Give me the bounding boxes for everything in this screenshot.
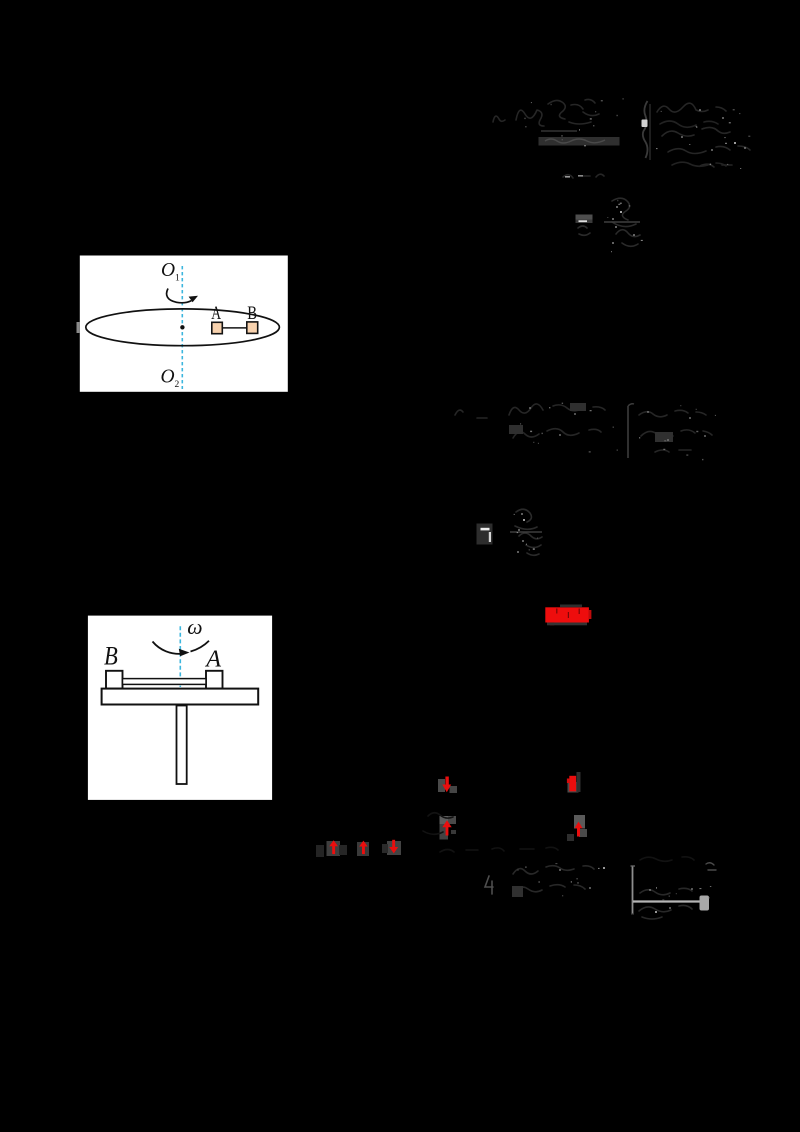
- scribble row1 mid: [548, 100, 583, 119]
- scribble right r2: [662, 127, 730, 136]
- equals gray block: [576, 215, 593, 224]
- center dot: [180, 325, 184, 329]
- gray block E: [512, 886, 523, 897]
- red down arrow b3: [392, 840, 395, 848]
- gray noise arrow b1: [327, 841, 341, 856]
- the 4 mark: [485, 876, 493, 894]
- gray noise near down arrow: [438, 779, 445, 792]
- svg-text:2: 2: [175, 380, 180, 390]
- tall squiggle D: [515, 509, 542, 555]
- red down arrow: [445, 777, 448, 787]
- scribble c row1: [509, 404, 605, 415]
- squiggle over gray bar: [545, 139, 605, 143]
- svg-text:ω: ω: [187, 615, 202, 639]
- gray noise near top blob c2: [568, 782, 579, 793]
- scribble c right r3: [655, 450, 691, 452]
- speckle dots D: [517, 513, 524, 553]
- bright dashes small row: [565, 176, 570, 178]
- block A fig1: [212, 322, 223, 333]
- scribble row1 right: [569, 99, 599, 124]
- bright dot B: [620, 211, 622, 213]
- gray blocks C: [509, 425, 523, 434]
- tall fraction squiggle: [612, 198, 640, 246]
- scribble small row: [563, 174, 604, 178]
- speckle dots A: [681, 109, 746, 151]
- c vertical line: [627, 406, 629, 458]
- scribble a2: [493, 116, 505, 122]
- disk ellipse: [86, 309, 280, 346]
- gray noise arrow b3: [387, 841, 401, 855]
- scribble right extra2: [672, 162, 726, 166]
- svg-text:A: A: [204, 646, 222, 673]
- gray block D: [477, 524, 493, 545]
- block A fig2: [206, 671, 223, 689]
- bright dot D: [523, 519, 525, 521]
- scribble c right r2: [641, 430, 712, 438]
- speckle dots E: [559, 869, 693, 909]
- axis dashed line fig2: [179, 626, 181, 687]
- scribble e below hline: [639, 905, 692, 919]
- figure 2 white box: [88, 616, 272, 800]
- rod fig2: [123, 679, 207, 685]
- fraction bar B: [604, 221, 640, 223]
- scribble e row2: [515, 885, 585, 892]
- bright dot A: [734, 142, 736, 144]
- speckle dots B: [612, 206, 635, 244]
- rotation arc fig2 right: [191, 641, 210, 652]
- fraction bar D: [510, 531, 542, 533]
- gray bar block A: [539, 137, 620, 146]
- c vline hook: [628, 404, 634, 406]
- svg-text:A: A: [211, 304, 221, 324]
- block B fig1: [247, 322, 258, 334]
- scribble mid3: [640, 857, 694, 861]
- bright dots E: [603, 867, 605, 869]
- gray noise near up arrow c2: [574, 815, 585, 829]
- bracket bottom tick: [631, 913, 634, 915]
- scribble row1 left: [516, 110, 544, 126]
- scribble right r1: [657, 103, 726, 112]
- svg-text:O: O: [161, 260, 175, 281]
- brace: [643, 101, 648, 158]
- scribble e above hline: [640, 888, 692, 894]
- rotation arc fig2 left: [153, 642, 183, 654]
- connector rod fig1: [222, 327, 247, 329]
- svg-text:O: O: [161, 367, 175, 388]
- bracket vline E: [632, 866, 634, 914]
- scribble right extra1: [660, 121, 718, 127]
- fraction bar A: [541, 130, 577, 132]
- svg-text:B: B: [247, 304, 257, 324]
- red top blob c2: [569, 776, 576, 792]
- bright blob E: [700, 896, 710, 911]
- bright dash D: [481, 528, 490, 531]
- gray fringe around red blob: [560, 605, 582, 608]
- scribble mid2: [440, 847, 558, 852]
- bracket top tick: [631, 865, 636, 867]
- scribble e row1: [513, 866, 594, 874]
- scribble right r3: [668, 146, 750, 154]
- red up arrow c1: [442, 820, 451, 827]
- scribble c right r1: [639, 410, 706, 416]
- speckle dots C: [529, 407, 706, 441]
- rotation arrowhead fig2: [179, 649, 190, 657]
- brace inner line: [649, 104, 651, 160]
- left edge notch: [77, 322, 80, 333]
- bright horizontal line E: [633, 900, 704, 902]
- scribble under equals: [578, 226, 590, 235]
- scribble c-lead: [455, 410, 487, 418]
- svg-text:1: 1: [175, 274, 180, 284]
- gray noise arrow b2: [357, 842, 369, 856]
- red up arrow b1: [329, 840, 338, 846]
- bright equals dash: [579, 220, 588, 222]
- red up arrow c2: [575, 822, 583, 829]
- red up arrow b2: [359, 841, 368, 847]
- post fig2: [177, 706, 187, 785]
- bright vline D: [489, 532, 491, 542]
- scribble mid1: [423, 813, 453, 835]
- specks top-right E: [706, 863, 716, 870]
- bright blob: [642, 120, 648, 128]
- svg-text:B: B: [104, 641, 118, 670]
- scribble c row2: [513, 429, 601, 438]
- block B fig2: [106, 671, 123, 689]
- figure 1 white box: [80, 256, 288, 392]
- rotation arrow fig1: [167, 289, 192, 303]
- scribble right r4: [700, 164, 732, 167]
- platform fig2: [102, 689, 259, 705]
- speckle noise overlay: [514, 98, 751, 900]
- dark mark left of arrows: [316, 845, 324, 857]
- axis dashed line O1-O2: [181, 266, 183, 389]
- gray noise near up arrow c1: [440, 816, 449, 824]
